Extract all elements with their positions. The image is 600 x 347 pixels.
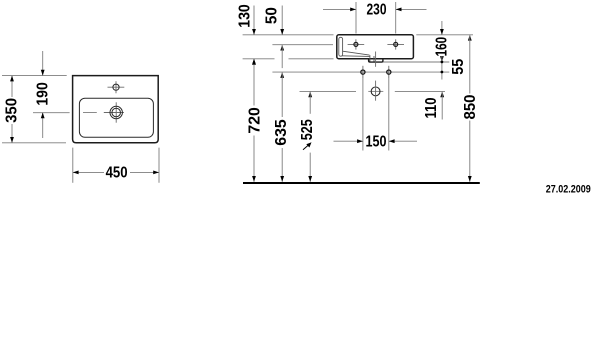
svg-text:850: 850: [462, 95, 479, 120]
dimension 720 line upper: [253, 59, 255, 106]
faucet hole right (elevation) crosshair: [387, 43, 404, 45]
dimension 450 line left: [73, 171, 104, 173]
svg-text:450: 450: [106, 164, 128, 181]
reference dot lower: [441, 71, 444, 74]
dimension 230 line right: [396, 8, 427, 10]
dimension 230 arrow right-pointing: [350, 8, 356, 12]
dimension 450 extension left: [72, 148, 74, 183]
dimension 160 leader line top: [441, 21, 443, 35]
dimension 635 line upper: [281, 72, 283, 117]
dimension 635 arrow down: [280, 176, 284, 182]
svg-text:130: 130: [237, 4, 254, 28]
dimension 150 extension left: [362, 78, 364, 151]
dimension 160 arrow down: [440, 29, 444, 35]
drain inner circle: [112, 108, 121, 117]
faucet hole crosshair v: [115, 81, 117, 93]
reference dot upper: [441, 61, 444, 64]
dimension 525 adjustability arrow: [303, 144, 310, 150]
dimension 150 arrow right-pointing: [357, 139, 363, 143]
dimension 230 line left: [323, 8, 356, 10]
level line basin top (y=34.8) left part: [243, 34, 334, 36]
drain box below basin: [369, 59, 383, 63]
dimension 635 line lower: [281, 148, 283, 182]
drain crosshair v: [115, 102, 117, 122]
dimension 130 leader line: [253, 6, 255, 35]
svg-text:230: 230: [367, 2, 387, 19]
section profile: outlet channel right: [373, 56, 375, 62]
dimension 350 arrow up: [10, 76, 14, 82]
dimension 450 arrow left: [73, 171, 79, 175]
extension line drain centerline left segments (y=112.5): [33, 112, 70, 114]
dimension 720 arrow down: [252, 176, 256, 182]
dimension 190 arrow down: [41, 70, 45, 76]
dimension 525 arrow down: [308, 176, 312, 182]
dimension 230 extension right (x=395.7): [395, 2, 397, 34]
dimension 850 arrow up: [468, 35, 472, 41]
fixing hole right crosshair: [388, 66, 390, 78]
dimension 130 arrow down: [252, 29, 256, 35]
dimension 150 line left: [334, 140, 363, 142]
dot chain line: [441, 56, 443, 79]
level line basin top right part: [416, 34, 473, 36]
dimension 635 arrow up: [280, 72, 284, 78]
trap hole centerline v: [375, 81, 377, 101]
extension line bottom (y=142.8): [2, 142, 66, 144]
dimension 525 arrow up: [308, 91, 312, 97]
dimension 230 arrow left-pointing: [396, 8, 402, 12]
fixing hole left crosshair: [362, 66, 364, 78]
dimension 150 arrow left-pointing: [389, 139, 395, 143]
basin bowl (plan inner): [79, 98, 153, 137]
dimension 720 line lower: [253, 136, 255, 182]
basin outer rim (plan): [73, 76, 159, 143]
basin body (front elevation): [337, 35, 414, 59]
dimension 525 line upper: [309, 91, 311, 113]
dimension 50 leader line: [281, 6, 283, 35]
dimension 450 extension right: [158, 148, 160, 183]
extension line top (y=75.6): [2, 75, 67, 77]
dimension 50 lower line: [281, 45, 283, 68]
dimension 450 arrow right: [153, 171, 159, 175]
dimension 50 arrow up at faucet level: [280, 45, 284, 51]
svg-text:50: 50: [264, 7, 281, 24]
svg-text:110: 110: [423, 98, 440, 119]
dimension 110 leader line: [441, 91, 443, 119]
trap hole circle: [371, 87, 380, 96]
dimension 350 line: [11, 76, 13, 97]
dimension 450 line right: [130, 171, 159, 173]
faucet hole: [113, 84, 119, 90]
dimension 525 line lower: [309, 153, 311, 182]
dimension 190 arrow up: [41, 113, 45, 119]
svg-text:720: 720: [246, 107, 263, 133]
faucet hole crosshair h: [108, 86, 125, 88]
dimension 230 extension left (x=356): [355, 2, 357, 34]
dimension 850 line lower: [469, 121, 471, 182]
level line basin bottom (y=58.8): [243, 58, 275, 60]
dimension 850 arrow down: [468, 176, 472, 182]
faucet hole left (elevation) crosshair: [348, 43, 365, 45]
section profile: bowl bottom upper line: [343, 51, 370, 55]
dimension 720 arrow up: [252, 59, 256, 65]
svg-text:160: 160: [433, 37, 450, 57]
svg-text:27.02.2009: 27.02.2009: [546, 184, 591, 196]
level line trap center (y=91.4): [300, 90, 357, 92]
dimension 130 arrow up at basin bottom: [252, 59, 256, 65]
dimension 150 extension right: [388, 78, 390, 151]
svg-text:190: 190: [34, 82, 51, 106]
svg-text:350: 350: [4, 98, 21, 123]
svg-text:55: 55: [450, 58, 467, 74]
level line fixing holes (y=71.9): [272, 71, 449, 73]
dimension 50 arrow down: [280, 29, 284, 35]
floor line: [243, 182, 480, 184]
dimension 190 line lower: [42, 113, 44, 139]
dimension 160 arrow down at dot level: [440, 56, 444, 62]
dimension 150 line right: [389, 140, 417, 142]
drain outer circle: [110, 106, 122, 118]
level line faucet holes (y=44.7): [272, 44, 333, 46]
svg-text:635: 635: [273, 119, 290, 146]
section profile: rim wall loop: [339, 37, 343, 56]
dimension 850 line upper: [469, 35, 471, 94]
svg-text:525: 525: [299, 119, 316, 140]
section profile: outlet channel left: [369, 55, 371, 62]
section profile: bowl bottom lower line: [342, 55, 370, 58]
dimension 350 arrow down: [10, 137, 14, 143]
drain crosshair h: [104, 112, 124, 114]
svg-text:150: 150: [366, 133, 387, 150]
level line drain-box bottom (y=62): [383, 61, 449, 63]
dimension 110 arrow up: [440, 91, 444, 97]
drain centerline upper: [375, 52, 377, 67]
dimension 190 line upper: [42, 51, 44, 76]
